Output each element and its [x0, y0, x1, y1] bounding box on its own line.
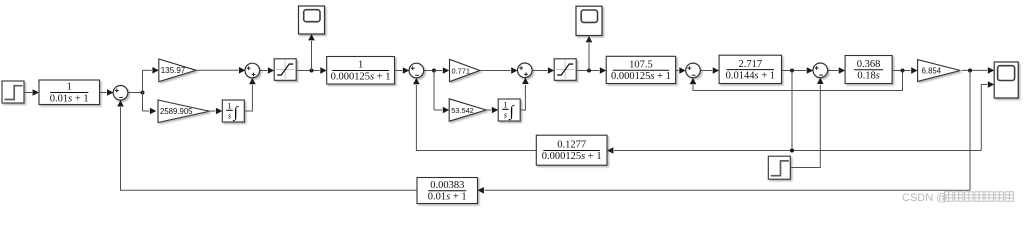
gain 6.854: [918, 60, 961, 82]
saturation block: [274, 59, 296, 81]
node junction: [141, 91, 145, 95]
sum Sum1: [113, 86, 128, 101]
svg-text:s: s: [228, 111, 231, 120]
integrator 1/s: [222, 100, 244, 122]
wire: [481, 70, 511, 72]
svg-text:0.0144s + 1: 0.0144s + 1: [726, 70, 775, 81]
step source Step1: [768, 156, 790, 179]
svg-text:0.000125s + 1: 0.000125s + 1: [542, 151, 602, 162]
wire: [196, 69, 238, 71]
transfer fcn 0.00383/(0.01s+1): [417, 178, 478, 204]
wire: [434, 109, 442, 111]
wire: [143, 110, 150, 112]
transfer fcn 0.368/0.18s: [845, 56, 892, 84]
wire: [433, 71, 435, 111]
scope Scope3: [994, 62, 1018, 98]
svg-text:0.00383: 0.00383: [430, 180, 464, 191]
svg-text:1: 1: [503, 101, 507, 110]
watermark text CSDN: [902, 192, 1014, 204]
node junction: [432, 69, 436, 73]
svg-text:1: 1: [67, 82, 72, 93]
svg-text:135.97: 135.97: [161, 66, 186, 75]
transfer fcn 107.5/(0.000125s+1): [606, 56, 675, 83]
svg-text:0.1277: 0.1277: [557, 140, 586, 151]
transfer fcn 0.1277/(0.000125s+1): [536, 135, 607, 165]
svg-text:0.771: 0.771: [452, 66, 471, 75]
wire: [981, 85, 987, 151]
scope Scope1: [299, 6, 325, 34]
transfer fcn 1/(0.000125s+1): [327, 57, 395, 85]
wire: [782, 70, 807, 72]
wire: [24, 92, 33, 94]
wire: [962, 69, 988, 71]
wire: [791, 71, 793, 151]
gain 53.542: [449, 99, 486, 121]
wire: [416, 85, 536, 151]
node junction: [790, 149, 794, 153]
svg-text:2589.905: 2589.905: [160, 107, 193, 116]
wire: [395, 70, 403, 72]
svg-text:CSDN @: CSDN @: [902, 192, 947, 204]
wire: [244, 85, 252, 111]
wire: [828, 70, 839, 72]
wire: [100, 92, 107, 94]
wire: [143, 69, 152, 71]
wire: [676, 70, 679, 72]
wire: [700, 70, 712, 72]
svg-text:2.717: 2.717: [738, 59, 762, 70]
step source Step: [2, 81, 24, 103]
wire: [296, 70, 320, 72]
svg-text:53.542: 53.542: [451, 106, 474, 115]
wire: [532, 70, 547, 72]
svg-text:107.5: 107.5: [629, 59, 653, 70]
gain 0.771: [450, 59, 480, 81]
svg-text:1: 1: [358, 60, 363, 71]
transfer fcn 1/(0.01s+1): [39, 80, 100, 105]
svg-text:0.000125s + 1: 0.000125s + 1: [331, 71, 391, 82]
gain 135.97: [159, 59, 196, 82]
wire: [142, 70, 144, 111]
wire: [311, 41, 313, 71]
gain 2589.905: [158, 100, 209, 123]
wire: [614, 150, 981, 152]
svg-text:0.18s: 0.18s: [857, 71, 879, 82]
node junction: [901, 69, 905, 73]
wire: [892, 70, 911, 72]
svg-text:1: 1: [228, 102, 232, 111]
svg-text:0.368: 0.368: [857, 59, 881, 70]
wire: [485, 189, 971, 191]
node junction: [587, 69, 591, 73]
wire: [520, 85, 525, 110]
wire: [121, 107, 418, 190]
saturation block: [554, 59, 576, 81]
node junction: [790, 69, 794, 73]
svg-text:0.000125s + 1: 0.000125s + 1: [611, 71, 671, 82]
node junction: [310, 69, 314, 73]
svg-text:s: s: [504, 110, 507, 119]
svg-text:0.01s + 1: 0.01s + 1: [50, 93, 89, 104]
wire: [209, 110, 215, 112]
wire: [693, 71, 903, 91]
wire: [969, 71, 971, 191]
sum Sum6: [813, 63, 828, 78]
wire: [486, 109, 491, 111]
wire: [588, 43, 590, 71]
node junction: [968, 69, 972, 73]
sum Sum2: [245, 63, 260, 78]
scope Scope2: [576, 6, 602, 35]
wire: [128, 92, 143, 94]
svg-text:6.854: 6.854: [922, 66, 942, 75]
wire: [434, 70, 442, 72]
sum Sum3: [409, 63, 424, 78]
wire: [424, 70, 434, 72]
wire: [576, 70, 599, 72]
transfer fcn 2.717/(0.0144s+1): [719, 55, 781, 83]
wire: [260, 70, 268, 72]
wire: [790, 85, 820, 168]
integrator 1/s: [498, 99, 520, 121]
sum Sum4: [518, 63, 533, 78]
sum Sum5: [686, 63, 701, 78]
svg-text:0.01s + 1: 0.01s + 1: [428, 192, 467, 203]
